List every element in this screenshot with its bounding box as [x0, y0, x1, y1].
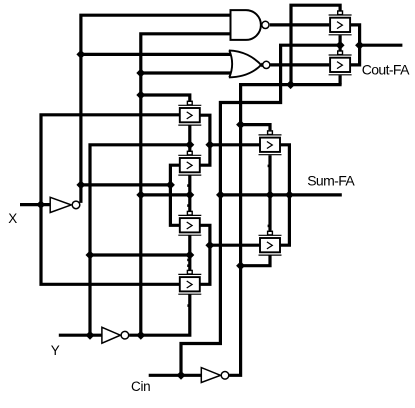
svg-text:X: X [8, 211, 17, 226]
svg-text:Cout-FA: Cout-FA [362, 62, 410, 78]
svg-text:Y: Y [51, 343, 60, 358]
svg-text:Cin: Cin [131, 379, 150, 394]
svg-text:Sum-FA: Sum-FA [307, 173, 355, 189]
